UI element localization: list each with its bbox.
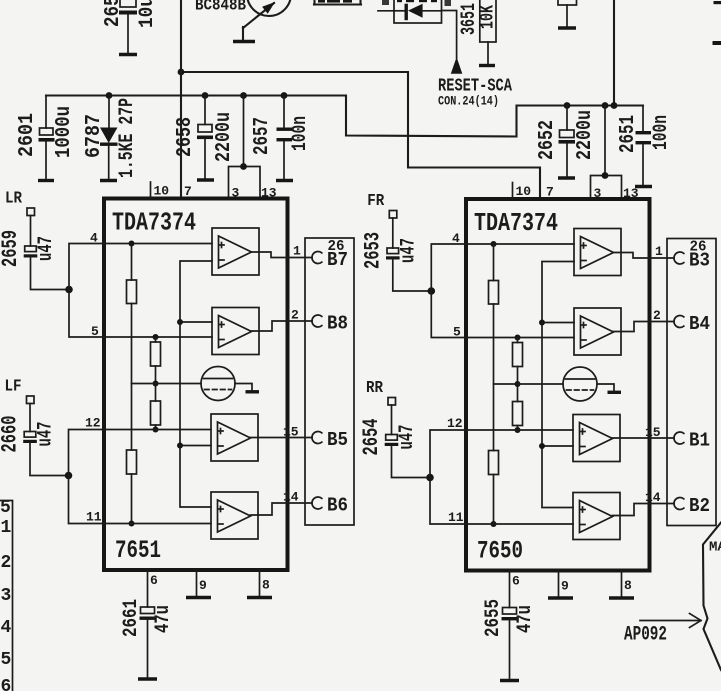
svg-text:14: 14	[283, 490, 299, 505]
ground of R3651	[479, 64, 495, 67]
connector contact B4 (7650)	[674, 316, 684, 328]
wire pin 4 input (7651)	[104, 243, 212, 245]
bias source circle (7651)	[201, 367, 235, 401]
svg-text:100n: 100n	[289, 116, 312, 151]
resistor internal RB2 (7650)	[513, 402, 523, 426]
wire FR cap to junction	[393, 260, 432, 292]
capacitor C2661 value 47u	[120, 599, 175, 677]
svg-text:2: 2	[653, 308, 661, 323]
diode D inside box	[394, 4, 442, 21]
ground of C2650	[119, 53, 137, 56]
bracket pins 3/13 IC1	[229, 167, 261, 199]
wire pin 11 input (7650)	[466, 523, 573, 525]
node LF junction	[65, 472, 73, 480]
node column B bias line (7650)	[515, 381, 521, 387]
capacitor 2654 value u47	[391, 405, 393, 435]
wire supply bus 2	[46, 96, 643, 137]
connector contact B1 (7650)	[674, 432, 684, 444]
wire column A (7650)	[493, 304, 495, 451]
op-amp amp3 (7650)	[573, 415, 620, 462]
small box top right (cut off)	[558, 0, 577, 27]
svg-text:2200u: 2200u	[574, 110, 597, 160]
node pin3/13 riser tap IC2	[602, 102, 609, 109]
connector pin square FR	[389, 211, 397, 219]
resistor internal RA2 (7650)	[489, 451, 499, 475]
svg-text:2652: 2652	[536, 120, 559, 160]
wire LF to pin 11	[69, 476, 104, 524]
svg-text:15: 15	[283, 425, 299, 440]
wire pin 8 to ground (7650)	[621, 571, 623, 597]
wire LF to pin 12	[69, 430, 104, 476]
ground of C2651	[635, 185, 652, 188]
capacitor C2651 value 100n	[617, 106, 673, 186]
svg-text:5: 5	[1, 650, 12, 670]
diode box (LED, cut off at top)	[394, 0, 442, 23]
node column B to pin12 wire (7651)	[153, 427, 159, 433]
node FR junction	[428, 287, 436, 295]
svg-text:9: 9	[561, 579, 569, 594]
svg-text:B1: B1	[689, 430, 710, 452]
wire pin 6 to cap (7651)	[147, 570, 149, 607]
node R-col-A top (7651)	[129, 241, 135, 247]
svg-text:3: 3	[594, 186, 602, 201]
svg-text:AP092: AP092	[624, 624, 667, 647]
svg-text:7651: 7651	[115, 536, 161, 565]
pin 10 stub (7651)	[150, 182, 152, 198]
wire bias line (7650)	[494, 383, 564, 385]
svg-text:MA: MA	[709, 540, 721, 556]
wire LR to pin 4	[69, 244, 104, 290]
ground of C2655	[500, 679, 519, 682]
svg-text:u47: u47	[35, 236, 58, 261]
wire column A (7651)	[131, 304, 133, 451]
svg-text:13: 13	[623, 186, 639, 201]
svg-text:10: 10	[154, 184, 170, 199]
wire output amp2 to pin 2 (7651)	[252, 321, 313, 331]
connector contact B2 (7650)	[674, 498, 684, 510]
svg-text:9: 9	[199, 578, 207, 593]
node column A to pin11 wire (7650)	[491, 521, 497, 527]
svg-text:7: 7	[546, 185, 554, 200]
pin 10 stub (7650)	[512, 183, 514, 199]
svg-text:12: 12	[447, 416, 463, 431]
svg-text:3: 3	[1, 586, 12, 606]
node column B top (7650)	[515, 335, 521, 341]
svg-text:6: 6	[150, 573, 158, 588]
svg-text:B3: B3	[689, 250, 710, 272]
svg-text:10u: 10u	[136, 0, 159, 28]
svg-text:u47: u47	[397, 238, 420, 263]
svg-text:1.5KE 27P: 1.5KE 27P	[116, 98, 139, 178]
capacitor C2652 value 2200u	[536, 106, 597, 177]
label box (cut off at top)	[314, 0, 361, 5]
svg-text:2654: 2654	[359, 419, 384, 456]
resistor R3651 value 10K	[458, 0, 499, 64]
svg-text:2658: 2658	[174, 117, 197, 157]
node diode 6787 tap	[106, 92, 113, 99]
wire pin 5 input (7651)	[104, 336, 212, 338]
wire pin 12 input (7651)	[104, 429, 211, 431]
wire pin 6 to cap (7650)	[509, 571, 511, 608]
svg-text:10K: 10K	[477, 5, 499, 29]
wire supply bus 1	[181, 72, 540, 198]
resistor internal RA1 (7651)	[131, 244, 133, 281]
svg-text:1000u: 1000u	[53, 106, 76, 158]
wire RR to pin 11	[430, 478, 465, 525]
svg-text:LR: LR	[5, 190, 23, 209]
wire FR to pin 5	[431, 291, 466, 338]
svg-text:7: 7	[184, 184, 192, 199]
capacitor 2659 value u47	[30, 216, 32, 247]
node feedback to amp3 (7651)	[177, 443, 183, 449]
svg-text:2: 2	[1, 553, 12, 573]
resistor internal RA1 (7650)	[493, 244, 495, 281]
wire riser to pins 3/13 bracket IC2	[604, 106, 606, 176]
svg-text:8: 8	[624, 578, 632, 593]
svg-text:2659: 2659	[0, 230, 23, 267]
wire output amp3 to pin 15 (7651)	[251, 437, 313, 439]
wire pin 9 to ground (7651)	[196, 570, 198, 596]
wire vertical top to IC1 pin 7	[180, 0, 182, 198]
connector contact B3 (7650)	[674, 252, 684, 264]
svg-text:B8: B8	[327, 313, 348, 335]
svg-text:LF: LF	[5, 378, 22, 397]
ground of C2657	[276, 179, 293, 182]
pin 3 label of diode box	[445, 0, 452, 6]
wire bias line (7651)	[132, 383, 202, 385]
wire output amp4 to pin 14 (7651)	[251, 503, 313, 515]
wire output amp2 to pin 2 (7650)	[614, 322, 675, 332]
node R-col-A top (7650)	[491, 241, 497, 247]
node C2657 tap	[281, 92, 288, 99]
node feedback to amp2 (7650)	[539, 320, 545, 326]
svg-text:6: 6	[1, 677, 12, 691]
capacitor C2655 value 47u	[482, 599, 537, 678]
wire LF cap to junction	[30, 443, 69, 476]
bias source circle (7650)	[563, 367, 597, 401]
op-amp amp3 (7651)	[211, 414, 258, 461]
wire pin 4 input (7650)	[466, 243, 574, 245]
svg-text:2200u: 2200u	[213, 112, 236, 162]
node feedback to amp3 (7650)	[539, 443, 545, 449]
connector pin square LF	[27, 396, 35, 404]
wire pin 9 to ground (7650)	[558, 571, 560, 597]
wire LR to pin 5	[69, 290, 104, 338]
op-amp amp2 (7650)	[574, 308, 621, 355]
node feedback to amp2 (7651)	[177, 319, 183, 325]
ground of pin 8 (7651)	[247, 596, 272, 599]
svg-text:11: 11	[448, 510, 464, 525]
wire bias to ground (7650)	[597, 384, 614, 391]
resistor internal RB1 (7650)	[517, 338, 519, 343]
ground of C2658	[197, 178, 214, 181]
svg-text:14: 14	[645, 490, 661, 505]
svg-text:11: 11	[86, 510, 102, 525]
connector contact B7 (7651)	[312, 252, 322, 264]
ground of small box	[558, 26, 576, 29]
svg-text:2657: 2657	[251, 117, 274, 155]
ground of transistor emitter	[233, 40, 255, 43]
wire riser to pins 3/13 bracket IC1	[243, 96, 245, 167]
resistor internal RA2 (7651)	[127, 450, 137, 474]
ground of pin 9 (7650)	[548, 596, 573, 599]
svg-text:6787: 6787	[83, 114, 106, 158]
capacitor C2657 value 100n	[251, 96, 312, 180]
svg-text:13: 13	[261, 186, 277, 201]
wire output amp4 to pin 14 (7650)	[613, 504, 675, 516]
svg-text:B5: B5	[327, 429, 348, 451]
svg-text:TDA7374: TDA7374	[474, 208, 558, 238]
wire output amp1 to pin 1 (7650)	[614, 253, 675, 259]
node bracket top IC2	[602, 172, 609, 179]
connector pin square RR	[388, 398, 396, 406]
connector pin square LR	[27, 208, 35, 216]
svg-text:B6: B6	[327, 495, 348, 517]
wire AP092 arrow	[640, 614, 701, 628]
svg-text:2: 2	[291, 308, 299, 323]
svg-text:12: 12	[85, 416, 101, 431]
ground of bias circle (7651)	[246, 390, 260, 393]
op-amp amp2 (7651)	[212, 308, 259, 355]
svg-text:2601: 2601	[16, 113, 39, 157]
svg-text:u47: u47	[35, 422, 58, 447]
wire output amp1 to pin 1 (7651)	[252, 252, 313, 258]
ground of C2601	[38, 179, 54, 182]
connector strip bottom left	[0, 498, 13, 691]
capacitor 2653 value u47	[392, 218, 394, 248]
ground of pin 8 (7650)	[609, 596, 634, 599]
wire feedback column (7651)	[180, 261, 212, 507]
capacitor 2660 value u47	[29, 404, 31, 432]
wire RR cap to junction	[392, 446, 431, 478]
svg-text:CON.24(14): CON.24(14)	[438, 95, 499, 109]
capacitor C2601 value 1000u	[16, 96, 76, 180]
node pin3/13 riser tap IC1	[240, 92, 247, 99]
connector box 26 (7650)	[667, 239, 716, 526]
wire RR to pin 12	[430, 430, 465, 478]
op-amp amp1 (7651)	[212, 228, 259, 275]
wire output amp3 to pin 15 (7650)	[613, 437, 675, 439]
wire bias to ground (7651)	[235, 384, 252, 391]
svg-text:RESET-SCA: RESET-SCA	[438, 77, 512, 97]
svg-text:2653: 2653	[360, 232, 385, 269]
svg-text:BC848B: BC848B	[195, 0, 246, 16]
svg-text:100n: 100n	[650, 115, 673, 150]
node RESET-SCA arrow	[451, 57, 463, 74]
capacitor C2650 value 10u	[102, 0, 159, 53]
ground of pin 9 (7651)	[186, 596, 211, 599]
node bus1/pin7 junction	[178, 69, 185, 76]
node C2658 tap	[202, 92, 209, 99]
diode D6787 value 1.5KE 27P	[83, 96, 139, 180]
wire diode box to reset arrow	[442, 11, 457, 59]
wire feedback column (7650)	[542, 262, 574, 508]
transistor Q BC848B	[243, 0, 291, 40]
svg-text:4: 4	[1, 618, 12, 638]
svg-text:2651: 2651	[617, 115, 640, 153]
wire pin 8 to ground (7651)	[259, 570, 261, 596]
connector box 26 (7651)	[305, 238, 354, 525]
ground of bias circle (7650)	[608, 391, 622, 394]
svg-text:2661: 2661	[120, 599, 143, 637]
svg-text:5: 5	[0, 498, 11, 518]
svg-text:2660: 2660	[0, 416, 23, 453]
node bracket top IC1	[240, 163, 247, 170]
node column B top (7651)	[153, 334, 159, 340]
connector contact B8 (7651)	[312, 315, 322, 327]
svg-text:8: 8	[262, 578, 270, 593]
ground of C2652	[558, 176, 575, 179]
capacitor C2658 value 2200u	[174, 96, 236, 180]
off-page polygon MA (cut off)	[703, 523, 721, 671]
node RR junction	[426, 474, 434, 482]
node top vertical tap	[611, 102, 618, 109]
svg-text:47u: 47u	[514, 605, 537, 633]
svg-text:10: 10	[516, 184, 532, 199]
svg-text:1: 1	[293, 244, 301, 259]
wire FR to pin 4	[431, 244, 466, 291]
svg-text:RR: RR	[366, 379, 384, 398]
op-amp IC U TDA7374 (7651) outline	[104, 199, 288, 571]
wire vertical from top at x=614	[613, 0, 615, 106]
resistor internal RB2 (7651)	[151, 401, 161, 425]
node column B to pin12 wire (7650)	[515, 427, 521, 433]
svg-text:7650: 7650	[477, 537, 523, 566]
svg-text:3: 3	[232, 186, 240, 201]
wire pin 12 input (7650)	[466, 429, 573, 431]
pin 2 label of diode box	[378, 0, 394, 11]
svg-text:u47: u47	[396, 425, 419, 450]
resistor internal RB1 (7651)	[155, 337, 157, 342]
wire pin 5 input (7650)	[466, 337, 574, 339]
svg-text:15: 15	[645, 425, 661, 440]
connector contact B5 (7651)	[312, 432, 322, 444]
ground of D6787	[100, 179, 117, 182]
svg-text:2655: 2655	[482, 599, 505, 637]
svg-text:TDA7374: TDA7374	[112, 208, 196, 238]
node column A to pin11 wire (7651)	[129, 521, 135, 527]
op-amp amp1 (7650)	[574, 229, 621, 276]
svg-text:1: 1	[655, 244, 663, 259]
svg-text:B7: B7	[327, 249, 348, 271]
wire LR cap to junction	[31, 258, 70, 290]
svg-text:FR: FR	[367, 192, 385, 211]
op-amp amp4 (7651)	[211, 492, 258, 539]
connector contact B6 (7651)	[312, 497, 322, 509]
node C2652 tap	[564, 102, 571, 109]
svg-text:1: 1	[1, 518, 12, 538]
svg-text:B2: B2	[689, 495, 710, 517]
node LR junction	[65, 286, 73, 294]
node column B bias line (7651)	[153, 381, 159, 387]
wire pin 11 input (7651)	[104, 523, 211, 525]
bracket pins 3/13 IC2	[591, 176, 622, 200]
cut component marks at right edge	[714, 1, 721, 4]
svg-text:6: 6	[512, 574, 520, 589]
svg-text:B4: B4	[689, 313, 710, 335]
ground of C2661	[138, 677, 157, 680]
op-amp IC U TDA7374 (7650) outline	[466, 199, 650, 571]
svg-text:47u: 47u	[152, 605, 175, 633]
op-amp amp4 (7650)	[573, 493, 620, 540]
